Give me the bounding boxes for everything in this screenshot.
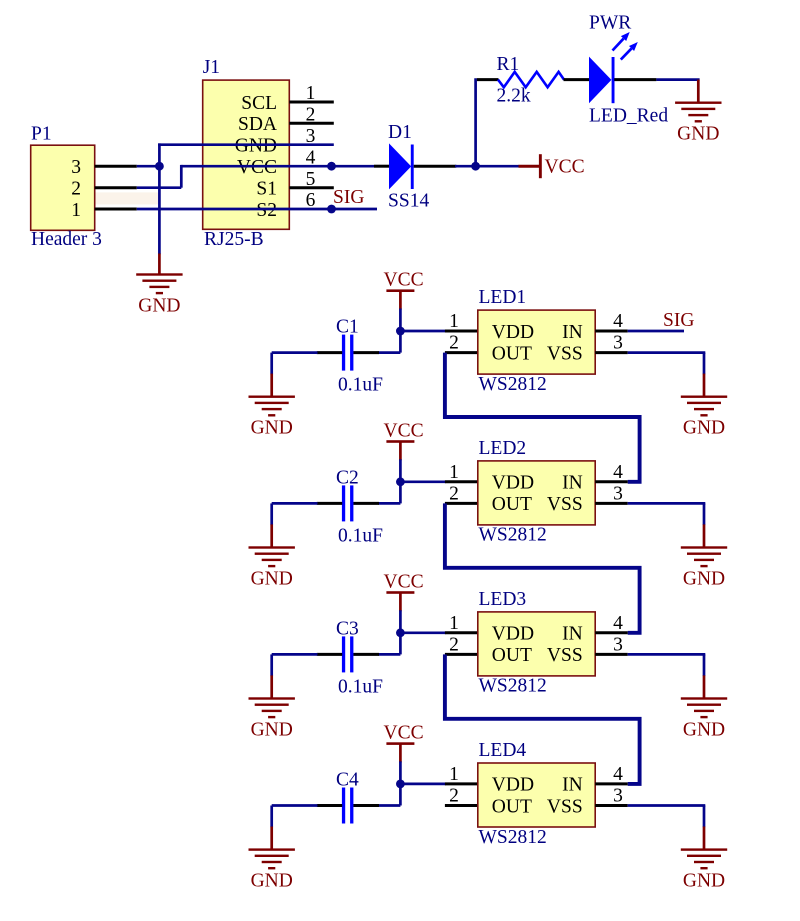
svg-text:SS14: SS14 xyxy=(388,191,429,212)
svg-text:2: 2 xyxy=(449,483,459,504)
svg-text:GND: GND xyxy=(251,568,293,589)
svg-text:5: 5 xyxy=(306,169,316,190)
svg-text:3: 3 xyxy=(613,634,623,655)
svg-text:GND: GND xyxy=(683,568,725,589)
svg-text:OUT: OUT xyxy=(492,343,532,364)
svg-text:GND: GND xyxy=(251,719,293,740)
svg-text:WS2812: WS2812 xyxy=(479,827,547,848)
svg-text:RJ25-B: RJ25-B xyxy=(204,229,264,250)
svg-text:D1: D1 xyxy=(388,122,412,143)
svg-text:WS2812: WS2812 xyxy=(479,676,547,697)
svg-text:LED3: LED3 xyxy=(479,589,527,610)
svg-text:1: 1 xyxy=(71,200,81,221)
svg-text:2: 2 xyxy=(449,786,459,807)
svg-text:0.1uF: 0.1uF xyxy=(338,375,383,396)
svg-text:IN: IN xyxy=(562,473,583,494)
svg-text:VCC: VCC xyxy=(384,420,424,441)
svg-text:1: 1 xyxy=(306,83,316,104)
svg-text:Header 3: Header 3 xyxy=(31,229,102,250)
svg-text:LED_Red: LED_Red xyxy=(589,106,668,127)
svg-text:3: 3 xyxy=(613,483,623,504)
svg-text:1: 1 xyxy=(449,311,459,332)
svg-text:C2: C2 xyxy=(336,467,359,488)
svg-text:3: 3 xyxy=(613,333,623,354)
svg-text:WS2812: WS2812 xyxy=(479,525,547,546)
svg-text:VSS: VSS xyxy=(547,645,583,666)
svg-text:4: 4 xyxy=(613,462,623,483)
svg-text:1: 1 xyxy=(449,613,459,634)
svg-text:OUT: OUT xyxy=(492,494,532,515)
svg-text:C1: C1 xyxy=(336,317,359,338)
svg-text:1: 1 xyxy=(449,462,459,483)
svg-text:SDA: SDA xyxy=(238,114,277,135)
svg-text:VCC: VCC xyxy=(384,270,424,291)
svg-text:4: 4 xyxy=(613,613,623,634)
svg-text:SCL: SCL xyxy=(241,93,277,114)
svg-text:C3: C3 xyxy=(336,618,359,639)
svg-text:VSS: VSS xyxy=(547,796,583,817)
svg-text:VDD: VDD xyxy=(492,624,534,645)
svg-text:SIG: SIG xyxy=(333,187,364,208)
svg-text:4: 4 xyxy=(613,311,623,332)
svg-text:2: 2 xyxy=(71,179,81,200)
svg-text:VDD: VDD xyxy=(492,322,534,343)
svg-text:VSS: VSS xyxy=(547,343,583,364)
svg-text:GND: GND xyxy=(251,418,293,439)
svg-text:0.1uF: 0.1uF xyxy=(338,676,383,697)
svg-text:GND: GND xyxy=(251,870,293,891)
svg-text:0.1uF: 0.1uF xyxy=(338,525,383,546)
svg-text:WS2812: WS2812 xyxy=(479,374,547,395)
svg-text:1: 1 xyxy=(449,764,459,785)
svg-text:VCC: VCC xyxy=(545,156,585,177)
svg-text:GND: GND xyxy=(138,295,180,316)
svg-text:LED2: LED2 xyxy=(479,438,527,459)
svg-text:4: 4 xyxy=(613,764,623,785)
svg-text:J1: J1 xyxy=(203,57,220,78)
svg-text:GND: GND xyxy=(677,124,719,145)
svg-text:IN: IN xyxy=(562,322,583,343)
svg-text:2: 2 xyxy=(449,634,459,655)
svg-text:LED4: LED4 xyxy=(479,740,527,761)
svg-text:SIG: SIG xyxy=(663,310,694,331)
svg-text:IN: IN xyxy=(562,775,583,796)
svg-text:VDD: VDD xyxy=(492,473,534,494)
svg-text:GND: GND xyxy=(683,719,725,740)
svg-text:VDD: VDD xyxy=(492,775,534,796)
svg-text:PWR: PWR xyxy=(589,13,631,34)
svg-text:2.2k: 2.2k xyxy=(497,86,531,107)
svg-text:P1: P1 xyxy=(31,124,52,145)
svg-text:2: 2 xyxy=(306,105,316,126)
svg-text:LED1: LED1 xyxy=(479,287,527,308)
svg-text:GND: GND xyxy=(683,870,725,891)
svg-text:2: 2 xyxy=(449,333,459,354)
svg-text:VCC: VCC xyxy=(384,571,424,592)
svg-text:R1: R1 xyxy=(497,54,520,75)
svg-text:VCC: VCC xyxy=(384,722,424,743)
svg-text:S1: S1 xyxy=(256,179,277,200)
svg-text:IN: IN xyxy=(562,624,583,645)
svg-text:OUT: OUT xyxy=(492,796,532,817)
svg-text:3: 3 xyxy=(613,786,623,807)
svg-text:C4: C4 xyxy=(336,770,359,791)
svg-text:OUT: OUT xyxy=(492,645,532,666)
svg-text:3: 3 xyxy=(71,157,81,178)
svg-text:VSS: VSS xyxy=(547,494,583,515)
svg-text:GND: GND xyxy=(683,418,725,439)
